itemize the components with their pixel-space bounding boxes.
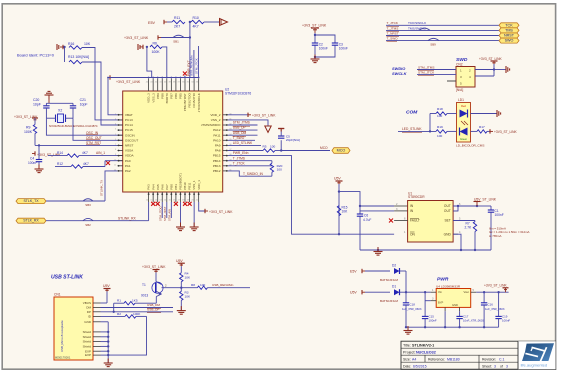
net label +3V3_ST_LINK vdd2: [247, 113, 249, 117]
led LD1 green diode: [460, 128, 468, 136]
svg-text:+3V3_ST_LINK: +3V3_ST_LINK: [209, 210, 233, 214]
svg-text:U5V_ST_LINK: U5V_ST_LINK: [474, 197, 497, 201]
svg-text:SB1: SB1: [173, 40, 179, 44]
ground right swd: [494, 69, 506, 71]
svg-text:E5V: E5V: [148, 21, 156, 25]
ground u1: [377, 247, 379, 252]
svg-text:PB6: PB6: [174, 93, 178, 99]
solder bridge SB2: [83, 218, 93, 220]
power flag pwr out: [503, 287, 509, 289]
svg-text:4K7: 4K7: [193, 25, 199, 29]
svg-text:PB1: PB1: [174, 184, 178, 190]
resistor R15: [337, 206, 340, 216]
wire PA15 tall column: [193, 50, 195, 78]
wire VSS_1 down to gnd: [193, 202, 195, 227]
svg-text:VDDA: VDDA: [125, 154, 135, 158]
svg-text:PC15: PC15: [125, 128, 133, 132]
svg-text:1uF_X5R_0603: 1uF_X5R_0603: [402, 307, 422, 311]
svg-text:TCK: TCK: [505, 23, 513, 27]
led LD1 body: [457, 103, 471, 143]
svg-text:Title:: Title:: [403, 343, 411, 347]
svg-text:E5V: E5V: [350, 270, 357, 274]
net label +3V3_ST_LINK com: [489, 129, 491, 133]
resistor R9: [33, 125, 36, 134]
st logo silhouette: [522, 343, 554, 361]
svg-text:U4 LD3985M33R: U4 LD3985M33R: [436, 284, 461, 288]
svg-text:100nF: 100nF: [429, 318, 437, 322]
resistor R17: [471, 130, 478, 132]
title block row lines: [401, 347, 518, 349]
svg-text:ON: ON: [410, 232, 416, 236]
title block logo cell: [517, 341, 519, 369]
svg-text:VDD_3: VDD_3: [147, 93, 151, 103]
ground CN1: [107, 359, 109, 364]
wire R6 left to VSS_3 pin: [147, 47, 152, 78]
svg-text:R12: R12: [57, 162, 63, 166]
ground pwr: [407, 326, 409, 331]
svg-text:3: 3: [506, 364, 508, 368]
node nrst-c4: [38, 144, 40, 146]
resistor R18: [430, 113, 436, 115]
svg-text:VBUS: VBUS: [83, 301, 91, 305]
resistor R7: [473, 222, 476, 232]
svg-text:T1: T1: [142, 283, 146, 287]
resistor R1: [114, 302, 124, 304]
svg-text:+3V3_ST_LINK: +3V3_ST_LINK: [484, 283, 508, 287]
no-connect X PB11: [188, 202, 192, 206]
svg-text:JTMS/SWDIO: JTMS/SWDIO: [201, 123, 221, 127]
svg-text:100nF: 100nF: [495, 213, 504, 217]
svg-text:8050170001: 8050170001: [55, 356, 71, 360]
svg-text:100K: 100K: [24, 130, 33, 134]
power flag for R16/R13: [62, 45, 64, 49]
svg-text:JTCK/SWCLK: JTCK/SWCLK: [197, 93, 201, 112]
power arrow down vss2: [265, 126, 271, 132]
no-connect X PA4: [151, 202, 155, 206]
svg-text:PA9: PA9: [215, 144, 221, 148]
svg-text:STM_JTCK: STM_JTCK: [418, 71, 435, 75]
svg-text:R16: R16: [68, 42, 74, 46]
svg-text:PB5: PB5: [179, 93, 183, 99]
svg-text:STLK_TX: STLK_TX: [23, 199, 39, 203]
port tag STLK_RX: [16, 218, 46, 223]
svg-text:R1: R1: [117, 298, 121, 302]
svg-text:USB_RENUMn: USB_RENUMn: [190, 55, 194, 76]
resistor R3: [180, 288, 182, 292]
wire T1 base to R4R3: [162, 287, 182, 289]
svg-text:10K: 10K: [84, 42, 91, 46]
svg-text:FAULT: FAULT: [410, 219, 420, 223]
svg-text:PB0: PB0: [169, 184, 173, 190]
svg-text:C.1: C.1: [499, 357, 504, 361]
svg-text:10K: 10K: [342, 210, 349, 214]
wire decoup top: [314, 33, 316, 43]
svg-text:PA3: PA3: [147, 184, 151, 190]
svg-text:20pF[N/A]: 20pF[N/A]: [286, 138, 300, 142]
svg-text:Green: Green: [460, 137, 468, 141]
solder bridge SB3: [83, 199, 93, 201]
svg-text:Red: Red: [461, 104, 466, 108]
wire PA11 row: [228, 134, 258, 136]
power arrow right: [220, 19, 228, 26]
wire PB14 T_JTMS: [228, 160, 272, 162]
wire SET row: [453, 220, 475, 222]
regulator U4 body: [436, 289, 471, 308]
wire VDD_2 to 3V3: [228, 114, 248, 116]
solder bridge SB9: [428, 38, 439, 40]
resistor R12: [55, 166, 71, 168]
wire OUT rows: [453, 205, 477, 207]
no-connect X PA5: [156, 202, 160, 206]
svg-text:Revision:: Revision:: [482, 357, 496, 361]
svg-text:4.7uF: 4.7uF: [363, 218, 371, 222]
svg-text:T_NRST: T_NRST: [387, 31, 399, 35]
node D1 D2 join: [405, 291, 407, 293]
svg-text:EXP: EXP: [85, 353, 91, 357]
svg-text:R14: R14: [57, 151, 63, 155]
wire T1 emitter: [156, 291, 162, 294]
svg-text:C16: C16: [488, 302, 494, 306]
svg-text:PC14: PC14: [125, 123, 133, 127]
wire BYP stub: [425, 300, 431, 302]
svg-text:PA2: PA2: [125, 169, 131, 173]
svg-text:C18: C18: [410, 302, 416, 306]
resistor R8: [181, 287, 197, 289]
pin5 stub CN2: [447, 80, 456, 82]
wire JTMS row: [228, 124, 258, 126]
svg-text:U5V: U5V: [103, 284, 110, 288]
svg-text:R10: R10: [193, 16, 199, 20]
svg-text:10pF: 10pF: [33, 102, 41, 106]
svg-text:USB ST-LINK: USB ST-LINK: [51, 275, 83, 281]
svg-text:STLINK_RX: STLINK_RX: [118, 216, 137, 220]
led LD1 red diode: [460, 110, 468, 118]
svg-text:R19: R19: [437, 125, 443, 129]
svg-text:USB_DP: USB_DP: [147, 308, 160, 312]
wire R6 right to BOOT0 pin: [162, 47, 167, 78]
wire PB0 down: [170, 202, 172, 218]
node decoup top: [314, 34, 316, 36]
power ground flag for R6: [142, 45, 144, 49]
svg-text:T_JTCK: T_JTCK: [387, 21, 399, 25]
svg-text:USB_DM: USB_DM: [233, 131, 247, 135]
svg-text:NUCLEO32: NUCLEO32: [416, 350, 436, 354]
svg-text:100nF: 100nF: [319, 46, 328, 50]
svg-text:10nF_X7R_0603: 10nF_X7R_0603: [463, 318, 484, 322]
svg-text:R11: R11: [174, 16, 180, 20]
svg-text:PA8: PA8: [215, 149, 221, 153]
regulator U1 pin stubs: [394, 205, 408, 207]
wire DP up to R1: [113, 303, 115, 312]
wire gnd rail u1: [360, 249, 491, 251]
svg-text:MB1180: MB1180: [447, 357, 460, 361]
node DP junction: [113, 311, 115, 313]
no-connect X PWR_EXT pin: [183, 72, 187, 76]
svg-text:PB10: PB10: [183, 182, 187, 190]
ground up symbol crystal: [48, 95, 50, 100]
svg-text:STM_JTCK: STM_JTCK: [194, 58, 198, 74]
connector CN1 pins: [93, 302, 101, 304]
wire R16 to PC13 column: [82, 48, 123, 120]
capacitor C21: [70, 105, 76, 107]
svg-text:TMS: TMS: [505, 28, 513, 32]
capacitor C17: [456, 315, 462, 317]
svg-text:10K: 10K: [185, 276, 191, 280]
port tag MCO: [332, 148, 350, 154]
wire SB1 row: [161, 37, 190, 39]
svg-text:PB15: PB15: [213, 154, 221, 158]
svg-text:PA0: PA0: [125, 159, 131, 163]
svg-text:U5V: U5V: [334, 177, 341, 181]
svg-text:PWR_ENn: PWR_ENn: [233, 151, 249, 155]
title block frame: [401, 341, 556, 369]
node u5v top: [338, 190, 340, 192]
svg-text:NRST: NRST: [504, 34, 515, 38]
svg-text:PA15/JTDI: PA15/JTDI: [192, 93, 196, 108]
svg-text:NX3225GD-8MHz-EXS00A-CG04874: NX3225GD-8MHz-EXS00A-CG04874: [49, 124, 98, 128]
wire PA9 row: [228, 144, 261, 146]
svg-text:Vout: Vout: [463, 290, 469, 294]
wire NRST row: [35, 144, 123, 146]
svg-text:LED_STLINK: LED_STLINK: [402, 127, 422, 131]
wire decoup bottom: [314, 45, 316, 59]
resistor R14: [48, 155, 67, 157]
st logo white channel lower: [525, 353, 538, 356]
wire E5V to R11: [167, 21, 172, 23]
svg-text:PA5: PA5: [156, 184, 160, 190]
svg-text:100K: 100K: [152, 50, 161, 54]
svg-text:MCO: MCO: [337, 149, 346, 153]
svg-text:Vin: Vin: [438, 290, 442, 294]
svg-text:1K5: 1K5: [132, 298, 138, 302]
power flag swd: [491, 60, 498, 62]
capacitor C6: [359, 211, 361, 214]
wire pwr gnd rail: [406, 326, 499, 328]
svg-text:+3V3_ST_LINK: +3V3_ST_LINK: [142, 265, 166, 269]
st logo white notch top: [531, 347, 533, 351]
svg-text:+3V3_ST_LINK: +3V3_ST_LINK: [116, 80, 141, 84]
svg-text:PB11: PB11: [188, 182, 192, 189]
power flag r4: [178, 262, 185, 264]
svg-text:PA10: PA10: [213, 138, 221, 142]
svg-text:X2: X2: [58, 109, 62, 113]
svg-text:T_SWDIO_IN: T_SWDIO_IN: [243, 172, 264, 176]
capacitor C4: [38, 145, 40, 159]
wire R11 junction down to MCU pin PB3: [189, 22, 191, 78]
wire IN2 jog: [360, 206, 394, 211]
connector CN2 body: [456, 67, 475, 88]
svg-text:T_JTMS: T_JTMS: [233, 156, 246, 160]
svg-text:R13 10K[N/A]: R13 10K[N/A]: [68, 55, 89, 59]
wire D2 out: [405, 271, 407, 292]
svg-text:PB14: PB14: [213, 159, 221, 163]
wire header TCK: [386, 24, 499, 26]
capacitor C19: [498, 292, 500, 316]
no-connect X PB10: [183, 202, 187, 206]
wire header NRST: [386, 35, 499, 37]
svg-text:PA7: PA7: [165, 184, 169, 190]
svg-text:Sheet:: Sheet:: [482, 364, 492, 368]
svg-text:PA6: PA6: [160, 184, 164, 190]
svg-text:D1: D1: [392, 285, 396, 289]
svg-text:PB9: PB9: [156, 93, 160, 99]
svg-text:R2: R2: [117, 312, 121, 316]
wire Vout rail: [476, 291, 508, 293]
wire PA6 down: [161, 202, 163, 218]
wire STLINK_TX up to PA2: [105, 171, 118, 201]
svg-text:BAT60JFILM: BAT60JFILM: [380, 278, 398, 282]
wire STLK_RX row: [46, 220, 149, 222]
wire LD1 pin1 right: [471, 113, 498, 115]
svg-text:of: of: [500, 364, 503, 368]
resistor R2: [101, 315, 126, 317]
wire PB2 down to gnd: [180, 202, 182, 227]
wire U4 gnd down: [444, 311, 446, 327]
svg-text:OSCIN: OSCIN: [125, 133, 135, 137]
svg-text:COM: COM: [406, 110, 418, 116]
svg-text:SB3: SB3: [85, 203, 91, 207]
node R16-R13 junction: [63, 46, 65, 48]
svg-text:VBAT: VBAT: [125, 113, 133, 117]
wire header SWO: [386, 40, 499, 42]
svg-text:PB3/JTDO: PB3/JTDO: [188, 93, 192, 108]
svg-text:VSS_3: VSS_3: [151, 93, 155, 103]
svg-text:Shield: Shield: [83, 345, 92, 349]
svg-text:2K7: 2K7: [174, 25, 180, 29]
svg-text:LED_STLINK: LED_STLINK: [233, 141, 253, 145]
wire 3V3 rail drop to VBAT: [108, 78, 118, 115]
svg-text:PA1: PA1: [125, 164, 131, 168]
svg-text:100K: 100K: [133, 312, 141, 316]
svg-text:1uF_X5R_0603: 1uF_X5R_0603: [485, 307, 505, 311]
net label +3V3_ST_LINK bottom: [204, 209, 206, 213]
capacitor C20: [43, 105, 49, 107]
svg-text:U5V: U5V: [176, 259, 183, 263]
wire R13 branch down: [64, 48, 66, 63]
wire STLINK_RX up to PA3: [148, 202, 150, 221]
svg-text:PA12: PA12: [213, 128, 221, 132]
led LD1 arrows: [461, 121, 465, 125]
wire PB13 T_JTCK: [228, 165, 272, 167]
svg-text:TCK/SWCLK: TCK/SWCLK: [408, 21, 427, 25]
svg-text:OSCOUT: OSCOUT: [125, 138, 138, 142]
svg-text:PC13: PC13: [125, 118, 133, 122]
wire DP row: [101, 311, 174, 313]
svg-text:STM_JTMS: STM_JTMS: [233, 121, 251, 125]
resistor R5: [228, 150, 263, 152]
wire E5V to D2: [365, 270, 390, 272]
resistor R20: [271, 161, 273, 164]
st logo white channel stem: [540, 347, 546, 361]
wire LED junction up: [429, 114, 431, 132]
diode D1: [394, 289, 400, 295]
wire crystal row: [46, 117, 55, 119]
svg-text:GND: GND: [444, 232, 452, 236]
svg-text:USB_DP: USB_DP: [233, 126, 246, 130]
wire OSC_IN: [46, 118, 122, 135]
svg-text:Project:: Project:: [403, 350, 416, 354]
wire GND pin down: [453, 234, 461, 250]
wire STLK_TX row: [46, 200, 105, 202]
wire header TMS: [386, 29, 499, 31]
connector CN1 body: [54, 297, 93, 360]
power flag u5vst: [474, 201, 481, 203]
port tag SWO: [499, 38, 519, 43]
svg-text:PA11: PA11: [213, 133, 220, 137]
wire R2 route: [108, 316, 146, 355]
svg-text:Shield: Shield: [83, 330, 92, 334]
ground VSS_1: [193, 223, 195, 228]
wire T1 collector: [155, 273, 157, 282]
svg-text:STM_RST: STM_RST: [86, 141, 101, 145]
svg-text:U5V: U5V: [350, 291, 357, 295]
svg-text:STM_JTMS: STM_JTMS: [418, 65, 435, 69]
port tag NRST: [499, 33, 519, 38]
svg-text:PB12: PB12: [213, 169, 221, 173]
diode D2: [394, 268, 400, 274]
svg-text:R17: R17: [479, 125, 485, 129]
ground right LD1: [496, 110, 498, 117]
node r15 bottom: [338, 233, 340, 235]
node c6 top: [359, 205, 361, 207]
capacitor C16: [483, 292, 485, 303]
ground decoup: [314, 55, 316, 60]
svg-text:D2: D2: [392, 264, 396, 268]
svg-text:R5: R5: [263, 145, 267, 149]
svg-text:LD_BICOLOR_CMS: LD_BICOLOR_CMS: [456, 144, 484, 148]
svg-text:OSC_IN: OSC_IN: [86, 131, 99, 135]
wire U5V to D1: [365, 291, 390, 293]
resistor R4: [180, 266, 182, 273]
svg-text:LD1: LD1: [458, 98, 464, 102]
wire Vin rail: [406, 291, 431, 293]
svg-text:T_SWO: T_SWO: [233, 136, 245, 140]
wire PA12 row: [228, 129, 258, 131]
node R11-R10: [189, 21, 191, 23]
wire pin4: [475, 75, 494, 77]
svg-text:STM_JRST: STM_JRST: [163, 206, 167, 221]
resistor R6: [150, 45, 162, 48]
svg-text:100nF: 100nF: [339, 46, 348, 50]
wire LED_STLINK row: [398, 130, 436, 132]
svg-text:100nF: 100nF: [502, 318, 510, 322]
svg-text:PB2/BOOT1: PB2/BOOT1: [179, 173, 183, 190]
regulator U4 pins: [431, 291, 437, 293]
svg-text:CN1: CN1: [54, 293, 61, 297]
svg-text:SWO: SWO: [505, 39, 514, 43]
wire VDDA row: [100, 155, 123, 157]
svg-text:+3V3_ST_LINK: +3V3_ST_LINK: [124, 36, 149, 40]
svg-text:+3V3_ST_LINK: +3V3_ST_LINK: [252, 113, 276, 117]
svg-text:+3V3_ST_LINK: +3V3_ST_LINK: [494, 130, 518, 134]
svg-text:PWR: PWR: [437, 277, 449, 283]
svg-text:100: 100: [270, 145, 275, 149]
node rail corner: [107, 77, 109, 79]
no-connect X FAULT: [394, 220, 408, 222]
svg-text:+3V3_ST_LINK: +3V3_ST_LINK: [479, 57, 503, 61]
ground C4: [38, 165, 40, 170]
node LED junction: [429, 130, 431, 132]
solder bridge SB1: [173, 35, 184, 37]
wire u5v to IN: [339, 192, 394, 206]
power flag U5V u1: [336, 180, 343, 182]
svg-text:STLINK/V2-1: STLINK/V2-1: [412, 343, 434, 347]
svg-text:USB_RENUMn: USB_RENUMn: [212, 283, 234, 287]
wire R13 to PC14 column: [82, 62, 123, 125]
wire U5V column: [338, 184, 340, 234]
svg-text:SWCLK: SWCLK: [392, 71, 408, 76]
svg-text:SB9: SB9: [430, 43, 436, 47]
